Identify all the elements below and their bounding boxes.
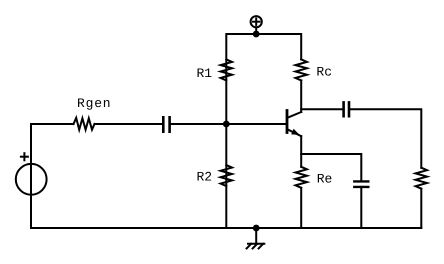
wire Re to bottom [300, 188, 302, 228]
voltage source V1 [16, 164, 47, 195]
resistor RL load [416, 168, 427, 189]
wire bottom rail [31, 227, 421, 229]
svg-text:R1: R1 [197, 66, 213, 81]
wire input horizontal left segment [31, 123, 74, 125]
wire emitter node to bypass capacitor column [301, 154, 361, 181]
wire R2 column bottom [225, 124, 227, 228]
capacitor C2 (output coupling) [344, 102, 349, 116]
node ground junction dot [253, 225, 260, 232]
svg-text:Rc: Rc [316, 65, 332, 80]
ground [247, 228, 265, 249]
svg-text:Re: Re [317, 171, 333, 186]
plus polarity mark of V1 [21, 153, 28, 160]
transistor Q1 collector lead [287, 112, 301, 118]
wire Rc to collector corner [300, 80, 302, 112]
resistor Rc [296, 59, 307, 80]
wire output horizontal to capacitor C2 [301, 108, 343, 110]
wire left vertical (source branch) [30, 124, 32, 228]
resistor Re [296, 167, 307, 188]
wire C3 to bottom [360, 187, 362, 228]
capacitor C1 (input coupling) [163, 117, 169, 131]
resistor Rgen [74, 118, 95, 130]
wire RL to bottom [420, 189, 422, 228]
wire from Rgen to capacitor C1 [95, 123, 164, 125]
node supply junction dot [253, 31, 260, 38]
svg-text:R2: R2 [197, 170, 213, 185]
transistor Q1 base bar [286, 111, 289, 133]
resistor R1 [221, 59, 232, 80]
svg-text:Rgen: Rgen [77, 96, 111, 111]
node base junction dot [223, 121, 230, 128]
wire emitter vertical to node [300, 136, 302, 167]
resistor R2 [221, 165, 232, 186]
wire top horizontal to Rc column [256, 34, 301, 59]
transistor Q1 emitter arrow [291, 129, 299, 135]
wire R1 column top [226, 34, 256, 124]
wire C2 to right column [349, 109, 421, 168]
capacitor C3 (emitter bypass) [354, 181, 368, 187]
wire from C1 to base node [170, 123, 287, 125]
transistor Q1 emitter lead [287, 129, 301, 136]
supply symbol Vcc circle with plus [251, 16, 262, 34]
